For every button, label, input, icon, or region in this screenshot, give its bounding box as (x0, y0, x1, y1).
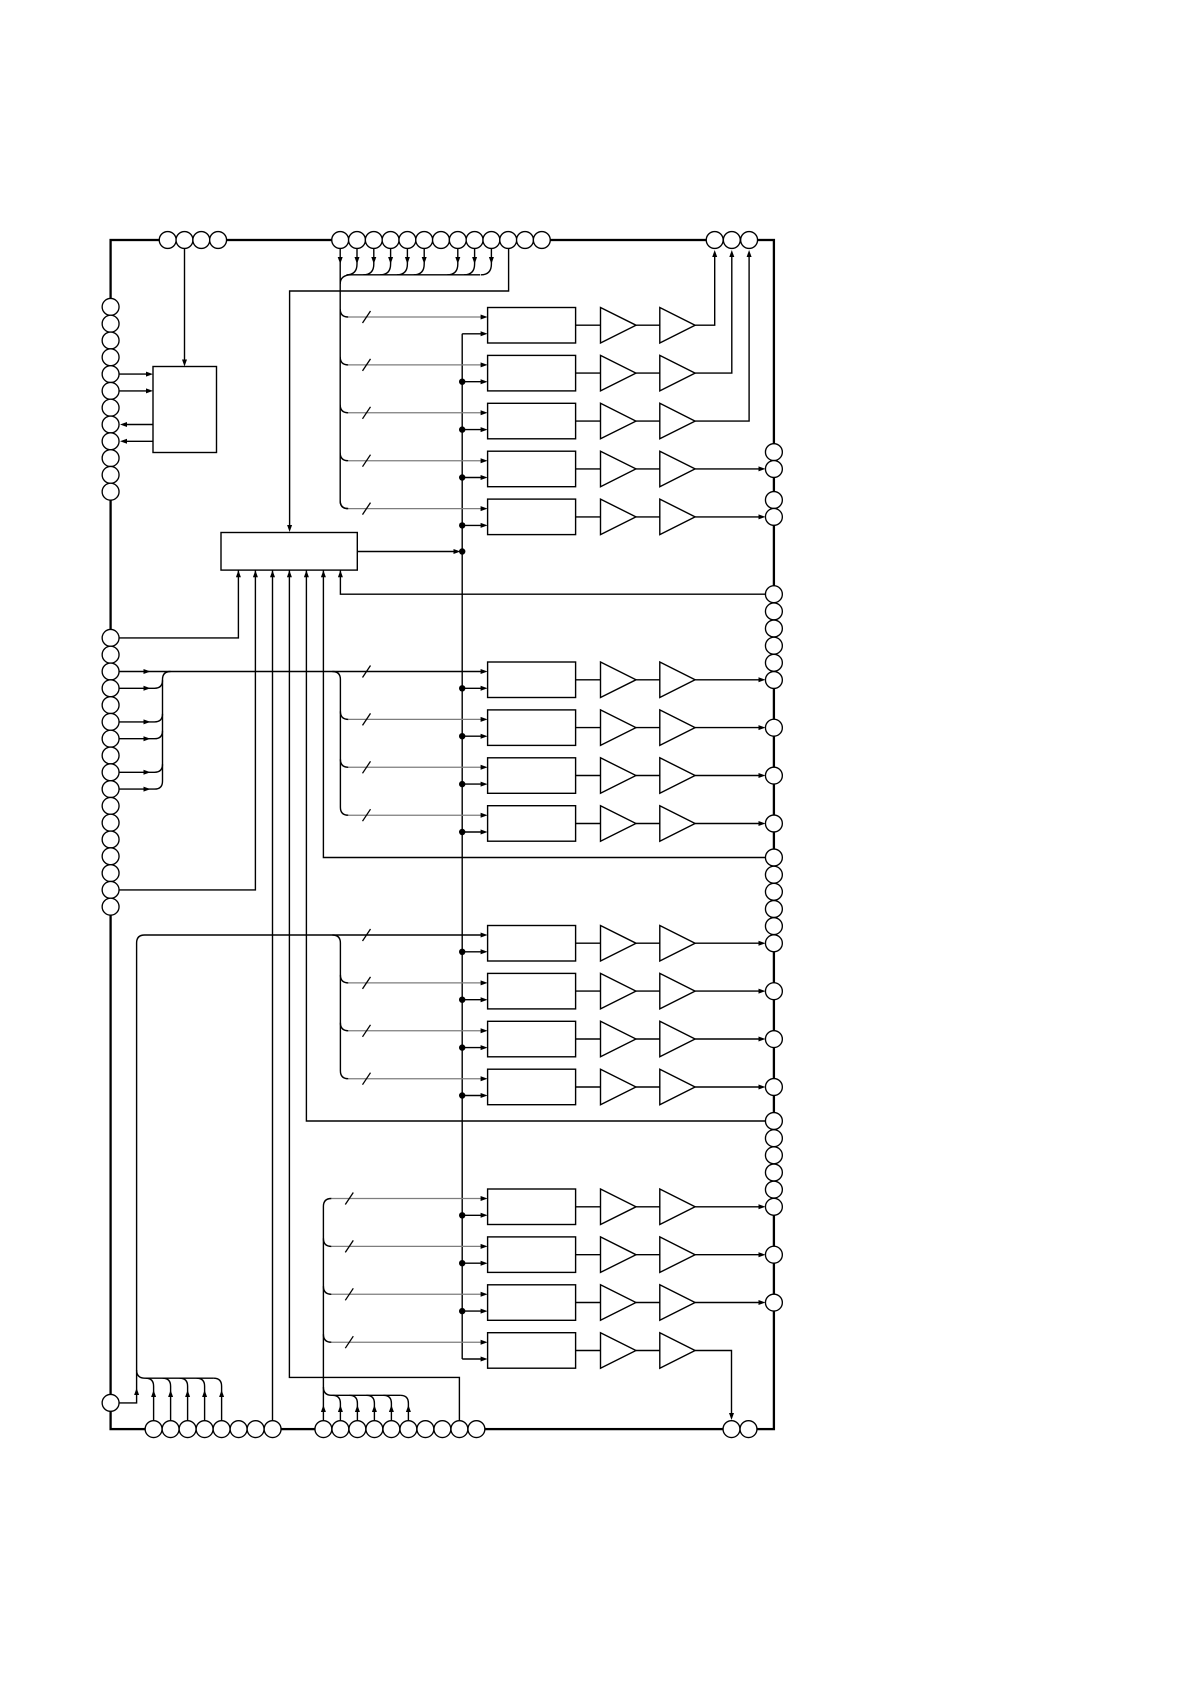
wire latch to buffer A3R4 (576, 1086, 601, 1088)
wire tap from bottom pad into bundle (197, 1378, 205, 1429)
buffer stage1 A1R4 (601, 451, 637, 487)
bus width slash A3R3 (363, 1025, 371, 1037)
wire tap from top pad T3 into bundle (363, 240, 374, 275)
arrow word line A4R2 (481, 1244, 488, 1249)
wire cluster bus joining pads LL4,LL6,LL7,LL9,LL10 (119, 672, 171, 790)
wire word line into latch A1R2 (348, 364, 481, 366)
arrow select stub A1R2 (481, 379, 488, 384)
wire select stub into latch A2R2 (462, 735, 481, 737)
latch box A2R4 (488, 806, 576, 842)
buffer stage2 A1R5 (660, 499, 695, 534)
arrow select stub A4R2 (481, 1261, 488, 1266)
wire word line into latch A1R4 (348, 460, 481, 462)
wire buffer1 to buffer2 A4R1 (636, 1206, 660, 1208)
buffer stage2 A1R3 (660, 403, 695, 439)
arrow word line A1R5 (481, 506, 488, 511)
wire output U1 to pad L8 (126, 424, 153, 426)
wire word line into latch A2R4 (348, 814, 481, 816)
junction dot on column bus (459, 997, 465, 1003)
junction dot on column bus (459, 522, 465, 528)
bus width slash A3R2 (363, 977, 371, 989)
arrow up on bottom pad tap (185, 1390, 190, 1397)
wire riser from bottom pads up to array 4 (323, 1199, 331, 1430)
wire feed line from pad LL3 to array 2 row 1 (119, 671, 481, 673)
wire select stub into latch A3R1 (462, 951, 481, 953)
arrow word line A2R2 (481, 717, 488, 722)
buffer stage2 A1R4 (660, 451, 695, 487)
wire arrow marker on LL3 feed (144, 669, 151, 674)
wire buffer1 to buffer2 A2R3 (636, 775, 660, 777)
junction dot on column bus (459, 829, 465, 835)
wire output A4R3 to right pad (695, 1302, 759, 1304)
bus width slash A4R1 (345, 1193, 353, 1205)
wire word line into latch A2R3 (348, 766, 481, 768)
arrow into U1 pin (146, 372, 153, 377)
arrow on riser tap T1 (338, 257, 343, 264)
arc branch array 1 row line (340, 357, 348, 365)
wire select stub into latch A4R4 (462, 1358, 481, 1360)
wire decoder input 2 from pad LL16 (119, 570, 255, 890)
arrow into top pad (729, 250, 734, 257)
arrow decoder bottom input 2 (253, 570, 258, 577)
wire tap from top pad T4 into bundle (380, 240, 391, 275)
arrow on left pad tap (144, 719, 151, 724)
pads top-right group (706, 232, 723, 249)
bus width slash A4R3 (345, 1288, 353, 1300)
wire from pad TL2 down to control block U1 (184, 240, 186, 360)
wire tap from bottom pad into bundle (180, 1378, 188, 1429)
wire word line into latch A4R1 (331, 1198, 481, 1200)
latch box A1R2 (488, 355, 576, 391)
junction dot on column bus (459, 1092, 465, 1098)
latch box A4R3 (488, 1285, 576, 1321)
buffer stage1 A3R2 (601, 973, 637, 1009)
arrow into right pad (759, 821, 766, 826)
bus width slash A1R2 (363, 359, 371, 371)
buffer stage1 A2R4 (601, 806, 637, 842)
buffer stage2 A3R3 (660, 1021, 695, 1057)
wire latch to buffer A3R1 (576, 942, 601, 944)
wire latch to buffer A4R3 (576, 1302, 601, 1304)
bus width slash A1R4 (363, 455, 371, 467)
arrow on tap T3 (371, 257, 376, 264)
wire select stub into latch A3R3 (462, 1047, 481, 1049)
chip outline border (111, 240, 774, 1429)
wire from pad T11 to decoder block top (290, 240, 509, 526)
wire buffer1 to buffer2 A2R2 (636, 727, 660, 729)
wire buffer1 to buffer2 A4R3 (636, 1302, 660, 1304)
wire buffer1 to buffer2 A4R4 (636, 1350, 660, 1352)
wire decoder input 7 from right pad run B (340, 570, 765, 594)
pads right side (765, 444, 782, 461)
buffer stage1 A3R1 (601, 926, 637, 962)
wire tap from top pad T9 into bundle (464, 240, 475, 275)
arrow word line A4R3 (481, 1292, 488, 1297)
buffer stage1 A1R3 (601, 403, 637, 439)
wire bundle bus collecting top pads (351, 274, 480, 276)
wire decoder input 3 from bottom pad B8 (272, 570, 274, 1429)
arc branch array 4 row 4 line (323, 1334, 331, 1342)
latch box A2R3 (488, 758, 576, 794)
wire decoder output to column bus (357, 551, 453, 553)
wire output A2R1 to right pad (695, 679, 759, 681)
buffer stage2 A4R3 (660, 1285, 695, 1321)
arrow up on bottom pad tap (355, 1405, 360, 1412)
decoder block U2 (221, 533, 357, 571)
wire word line into latch A1R3 (348, 412, 481, 414)
wire select stub into latch A3R2 (462, 999, 481, 1001)
arrow select stub A2R4 (481, 830, 488, 835)
junction dot on column bus (459, 949, 465, 955)
latch box A3R4 (488, 1069, 576, 1105)
arrow on left pad tap (144, 770, 151, 775)
arrow up on bottom pad tap (338, 1405, 343, 1412)
arrow select stub A3R1 (481, 949, 488, 954)
array 2 distribution bus (332, 672, 348, 816)
buffer stage1 A4R4 (601, 1333, 637, 1369)
arrow on tap T4 (388, 257, 393, 264)
arc branch array 2 row line (340, 711, 348, 719)
arrow into right pad (759, 1252, 766, 1257)
wire tap from bottom pad into bundle (214, 1378, 222, 1429)
arrow decoder bottom input 7 (338, 570, 343, 577)
wire bottom-left bundle bus (145, 1377, 214, 1379)
buffer stage2 A2R3 (660, 758, 695, 794)
latch box A1R5 (488, 499, 576, 534)
wire output A1R5 to right pad (695, 516, 759, 518)
latch box A3R1 (488, 926, 576, 962)
arc branch array 4 row line (323, 1238, 331, 1246)
wire tap from bottom pad into middle bundle (349, 1395, 357, 1429)
arrow select stub A1R3 (481, 427, 488, 432)
junction dot on column bus (459, 1260, 465, 1266)
arrow word line A4R1 (481, 1196, 488, 1201)
wire buffer1 to buffer2 A3R4 (636, 1086, 660, 1088)
arrow into right pad (759, 1037, 766, 1042)
wire select stub into latch A1R1 (462, 333, 481, 335)
wire word line into latch A4R3 (331, 1293, 481, 1295)
wire output A2R2 to right pad (695, 727, 759, 729)
buffer stage1 A1R5 (601, 499, 637, 534)
arrow into top pad (712, 250, 717, 257)
bus width slash A1R1 (363, 311, 371, 323)
arc branch array 3 row line (340, 1023, 348, 1031)
wire buffer1 to buffer2 A4R2 (636, 1254, 660, 1256)
arrow into decoder block top (287, 525, 292, 532)
arc branch array 1 row line (340, 501, 348, 509)
wire tap from bottom pad into middle bundle (400, 1395, 408, 1429)
pads bottom-left group (145, 1421, 162, 1438)
arrow on left pad tap (144, 736, 151, 741)
arc branch array 4 row line (323, 1286, 331, 1294)
arrow into pad L8 (120, 422, 127, 427)
arrow word line A1R2 (481, 362, 488, 367)
arrow into top pad (747, 250, 752, 257)
wire select stub into latch A4R1 (462, 1214, 481, 1216)
arrow on left pad tap (144, 787, 151, 792)
buffer stage2 A3R1 (660, 926, 695, 962)
wire output A1R1 to top pad (695, 257, 715, 326)
arrow up on riser (134, 1388, 139, 1395)
arrow array2 row1 input (481, 669, 488, 674)
buffer stage2 A3R4 (660, 1069, 695, 1105)
wire select stub into latch A4R2 (462, 1262, 481, 1264)
arrow up on bottom pad tap (372, 1405, 377, 1412)
buffer stage2 A2R2 (660, 710, 695, 746)
wire tap from top pad T8 into bundle (447, 240, 458, 275)
wire tap from bottom pad into bundle (163, 1378, 171, 1429)
arrow decoder bottom input 3 (270, 570, 275, 577)
wire output A4R4 down to bottom pad (695, 1351, 731, 1414)
buffer stage1 A1R1 (601, 308, 637, 344)
arrow decoder bottom input 4 (287, 570, 292, 577)
wire tap from bottom pad into middle bundle (332, 1395, 340, 1429)
arc branch array 1 row line (340, 309, 348, 317)
wire decoder input 1 from pad LL1 (119, 570, 238, 638)
latch box A3R3 (488, 1021, 576, 1057)
wire latch to buffer A1R3 (576, 420, 601, 422)
wire tap from top pad T5 into bundle (397, 240, 408, 275)
wire word line into latch A3R4 (348, 1078, 481, 1080)
bus width slash A3R4 (363, 1073, 371, 1085)
wire output A1R4 to right pad (695, 468, 759, 470)
junction dot on column bus (459, 426, 465, 432)
wire output A3R2 to right pad (695, 990, 759, 992)
wire latch to buffer A1R2 (576, 372, 601, 374)
wire buffer1 to buffer2 A1R2 (636, 372, 660, 374)
arrow on tap T9 (472, 257, 477, 264)
wire latch to buffer A2R2 (576, 727, 601, 729)
arrow onto column bus (454, 549, 461, 554)
junction dot on column bus (459, 781, 465, 787)
wire latch to buffer A4R2 (576, 1254, 601, 1256)
arrow select stub A1R1 (481, 331, 488, 336)
wire select stub into latch A1R5 (462, 524, 481, 526)
wire latch to buffer A1R4 (576, 468, 601, 470)
buffer stage2 A4R4 (660, 1333, 695, 1369)
wire select stub into latch A1R4 (462, 477, 481, 479)
arrow word line A3R3 (481, 1028, 488, 1033)
bus width slash A1R3 (363, 407, 371, 419)
arrow array3 row1 input (481, 933, 488, 938)
arrow on tap T8 (455, 257, 460, 264)
arrow select stub A2R1 (481, 686, 488, 691)
buffer stage1 A3R3 (601, 1021, 637, 1057)
pads top-left group (159, 232, 176, 249)
wire output A4R2 to right pad (695, 1254, 759, 1256)
arrow word line A2R3 (481, 765, 488, 770)
wire tap from top pad T6 into bundle (414, 240, 425, 275)
arrow up on array4 riser (321, 1405, 326, 1412)
latch box A2R2 (488, 710, 576, 746)
latch box A1R3 (488, 403, 576, 439)
buffer stage2 A2R4 (660, 806, 695, 842)
wire tap from bottom pad into bundle (146, 1378, 154, 1429)
buffer stage2 A3R2 (660, 973, 695, 1009)
bus width slash A4R4 (345, 1336, 353, 1348)
junction dot on column bus (459, 474, 465, 480)
buffer stage1 A2R1 (601, 662, 637, 698)
wire decoder input 6 from right pad run C (323, 570, 765, 857)
wire output A4R1 to right pad (695, 1206, 759, 1208)
wire select stub into latch A3R4 (462, 1095, 481, 1097)
arrow on tap T10 (489, 257, 494, 264)
wire select stub into latch A2R4 (462, 831, 481, 833)
buffer stage1 A4R3 (601, 1285, 637, 1321)
arrow on left pad tap (144, 686, 151, 691)
arrow into control block U1 top (182, 360, 187, 367)
arrow into right pad (759, 677, 766, 682)
wire input from pad L6 to U1 (119, 390, 147, 392)
wire word line into latch A1R5 (348, 508, 481, 510)
bus width slash A2R4 (363, 809, 371, 821)
latch box A3R2 (488, 973, 576, 1009)
wire tap from bottom pad into middle bundle (383, 1395, 391, 1429)
arrow word line A1R4 (481, 458, 488, 463)
arrow word line A1R1 (481, 315, 488, 320)
wire select stub into latch A1R2 (462, 381, 481, 383)
pads left upper chain (102, 298, 119, 315)
junction dot on column bus (459, 685, 465, 691)
wire select stub into latch A4R3 (462, 1310, 481, 1312)
buffer stage2 A4R2 (660, 1237, 695, 1273)
arrow select stub A2R3 (481, 782, 488, 787)
arrow into pad L9 (120, 439, 127, 444)
wire word line into latch A1R1 (348, 316, 481, 318)
arc bundle bus into riser (137, 1370, 145, 1378)
arrow into U1 pin (146, 388, 153, 393)
wire word line into latch A3R2 (348, 982, 481, 984)
arrow select stub A4R4 (481, 1357, 488, 1362)
latch box A1R4 (488, 451, 576, 487)
control block U1 (153, 367, 217, 453)
wire latch to buffer A4R4 (576, 1350, 601, 1352)
arrow into right pad (759, 466, 766, 471)
arrow into right pad (759, 514, 766, 519)
junction dot on column bus (459, 1308, 465, 1314)
arc branch array 1 row line (340, 453, 348, 461)
wire riser from pad BL-lone up to array 3 row 1 (119, 935, 481, 1403)
wire word line into latch A4R4 (331, 1341, 481, 1343)
buffer stage1 A1R2 (601, 355, 637, 391)
latch box A1R1 (488, 308, 576, 344)
arrow select stub A3R2 (481, 997, 488, 1002)
wire buffer1 to buffer2 A2R1 (636, 679, 660, 681)
wire latch to buffer A2R1 (576, 679, 601, 681)
wire tap from left pad into cluster bus (119, 731, 163, 739)
wire decoder input 4 from bottom pad B17 (289, 570, 459, 1429)
wire output A2R3 to right pad (695, 775, 759, 777)
wire select stub into latch A2R1 (462, 687, 481, 689)
buffer stage1 A2R2 (601, 710, 637, 746)
buffer stage1 A2R3 (601, 758, 637, 794)
pads bottom-right pair (723, 1421, 740, 1438)
wire latch to buffer A1R5 (576, 516, 601, 518)
buffer stage2 A4R1 (660, 1189, 695, 1225)
arrow up on bottom pad tap (406, 1405, 411, 1412)
arrow select stub A3R4 (481, 1093, 488, 1098)
arrow up on bottom pad tap (389, 1405, 394, 1412)
wire tap from left pad into cluster bus (119, 714, 163, 722)
arc bottom-middle bus into riser (323, 1387, 331, 1395)
latch box A4R4 (488, 1333, 576, 1369)
wire bundle left arc into riser (340, 275, 351, 284)
wire select stub into latch A1R3 (462, 429, 481, 431)
latch box A4R2 (488, 1237, 576, 1273)
arrow up on bottom pad tap (168, 1390, 173, 1397)
arrow into right pad (759, 941, 766, 946)
arrow decoder bottom input 1 (236, 570, 241, 577)
junction dot on column bus (459, 733, 465, 739)
bus width slash A2R3 (363, 761, 371, 773)
wire output U1 to pad L9 (126, 440, 153, 442)
arrow into right pad (759, 1085, 766, 1090)
wire bus riser from pad T1 down left of array 1 (340, 240, 348, 509)
pads top-middle group (332, 232, 349, 249)
wire buffer1 to buffer2 A1R5 (636, 516, 660, 518)
wire input from pad L5 to U1 (119, 373, 147, 375)
wire word line into latch A3R3 (348, 1030, 481, 1032)
arrow into bottom pad (729, 1413, 734, 1420)
wire output A1R2 to top pad (695, 257, 732, 374)
wire tap from top pad T10 into bundle (481, 240, 492, 275)
wire latch to buffer A2R3 (576, 775, 601, 777)
array 3 distribution bus (332, 935, 348, 1079)
bus width slash A2R1 (363, 666, 371, 678)
wire latch to buffer A3R3 (576, 1038, 601, 1040)
wire output A1R3 to top pad (695, 257, 749, 422)
arrow word line A3R4 (481, 1076, 488, 1081)
arrow select stub A2R2 (481, 734, 488, 739)
arrow select stub A4R1 (481, 1213, 488, 1218)
arc branch array 1 row line (340, 405, 348, 413)
wire tap from left pad into cluster bus (119, 680, 163, 688)
arrow on tap T2 (355, 257, 360, 264)
pads bottom-middle group (315, 1421, 332, 1438)
latch box A4R1 (488, 1189, 576, 1225)
arrow up on bottom pad tap (219, 1390, 224, 1397)
pad left lone bottom (102, 1394, 119, 1411)
wire output A3R1 to right pad (695, 942, 759, 944)
wire buffer1 to buffer2 A1R3 (636, 420, 660, 422)
pads left lower chain (102, 629, 119, 646)
wire latch to buffer A1R1 (576, 324, 601, 326)
arrow word line A4R4 (481, 1340, 488, 1345)
wire select stub into latch A2R3 (462, 783, 481, 785)
buffer stage1 A4R1 (601, 1189, 637, 1225)
arrow into right pad (759, 989, 766, 994)
wire tap from left pad into cluster bus (119, 764, 163, 772)
bus width slash A1R5 (363, 503, 371, 515)
wire tap from bottom pad into middle bundle (366, 1395, 374, 1429)
arrow up on bottom pad tap (202, 1390, 207, 1397)
column bus vertical (register select) (461, 334, 463, 1359)
wire buffer1 to buffer2 A3R2 (636, 990, 660, 992)
wire word line into latch A2R2 (348, 718, 481, 720)
buffer stage2 A1R1 (660, 308, 695, 344)
wire buffer1 to buffer2 A1R1 (636, 324, 660, 326)
junction dot on column bus (459, 379, 465, 385)
wire latch to buffer A2R4 (576, 823, 601, 825)
arrow into right pad (759, 725, 766, 730)
wire buffer1 to buffer2 A2R4 (636, 823, 660, 825)
arrow into right pad (759, 1204, 766, 1209)
wire latch to buffer A3R2 (576, 990, 601, 992)
arrow select stub A4R3 (481, 1309, 488, 1314)
wire decoder input 5 from right pad run D (306, 570, 765, 1121)
bus width slash A4R2 (345, 1240, 353, 1252)
wire tap from top pad T2 into bundle (347, 240, 358, 275)
